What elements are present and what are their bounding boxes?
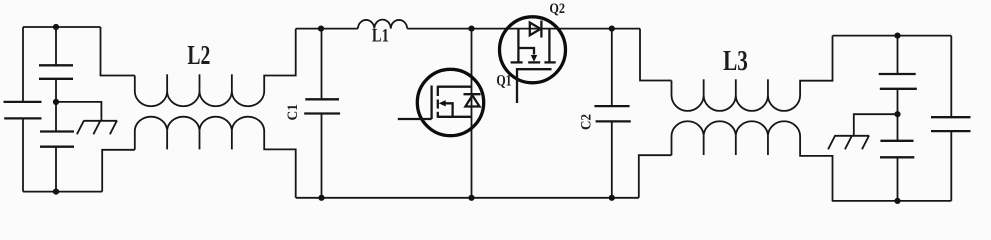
- node chassis junction right: [894, 111, 900, 117]
- node C2 top junction: [609, 26, 615, 32]
- transistor Q2 circle: [500, 17, 566, 83]
- wire bottom-left riser to L2: [102, 150, 135, 192]
- diode Q2 body diode: [530, 21, 542, 38]
- capacitor C2: [594, 29, 630, 198]
- svg-text:C2: C2: [579, 114, 595, 130]
- node Q1 branch top junction: [468, 26, 474, 32]
- wire top-left loop horizontal: [23, 26, 101, 28]
- inductor L2 lower winding: [135, 117, 296, 198]
- capacitor input upper (center branch): [39, 65, 73, 79]
- inductor L2 upper winding: [135, 29, 296, 107]
- capacitor input lower (center branch): [40, 132, 74, 147]
- node C1 bottom junction: [318, 195, 324, 201]
- capacitor input source (left edge): [4, 102, 42, 119]
- svg-text:L1: L1: [372, 27, 389, 47]
- svg-text:L3: L3: [723, 46, 748, 77]
- wire chassis lead left: [56, 102, 101, 121]
- wire right center branch lower: [897, 157, 899, 201]
- wire top-left riser to L2: [101, 27, 135, 76]
- wire Q1 branch vertical: [471, 29, 473, 198]
- wire center branch lower: [55, 147, 57, 192]
- capacitor C1: [304, 29, 340, 198]
- node chassis junction left: [53, 99, 59, 105]
- wire right block top: [833, 35, 952, 37]
- wire center branch upper: [55, 27, 57, 65]
- wire left vertical upper: [22, 27, 24, 102]
- wire top rail corner down to L3: [640, 29, 672, 81]
- capacitor output load (right edge): [931, 117, 971, 131]
- capacitor output upper (center branch): [879, 74, 917, 89]
- node C2 bottom junction: [609, 195, 615, 201]
- transistor Q1 body arrow: [439, 100, 446, 106]
- inductor L1: [358, 20, 407, 29]
- svg-text:Q2: Q2: [549, 1, 565, 17]
- wire center branch middle: [55, 79, 57, 132]
- ground chassis symbol left: [77, 121, 117, 135]
- inductor L3 lower winding: [672, 121, 833, 201]
- wire bottom rail corner up to L3: [639, 155, 672, 198]
- node output bottom junction: [894, 198, 900, 204]
- node output top junction: [894, 33, 900, 39]
- wire right center branch middle: [897, 89, 899, 141]
- transistor Q1 circle: [417, 69, 483, 135]
- wire left vertical lower: [22, 118, 24, 191]
- inductor L3 upper winding: [672, 36, 833, 111]
- wire right block bottom: [832, 200, 952, 202]
- svg-text:L2: L2: [187, 39, 210, 70]
- wire chassis lead right: [854, 114, 898, 136]
- transistor Q2 body arrow: [531, 55, 537, 62]
- wire right edge vertical lower: [950, 131, 952, 201]
- transistor Q2 mosfet symbol: [511, 29, 556, 103]
- node Q1 branch bottom junction: [468, 195, 474, 201]
- svg-text:C1: C1: [285, 104, 301, 121]
- wire middle bottom rail: [296, 197, 639, 199]
- capacitor output lower (center branch): [880, 141, 914, 158]
- wire right edge vertical upper: [950, 36, 952, 118]
- wire right center branch upper: [897, 36, 899, 74]
- wire middle top rail left part: [296, 28, 358, 30]
- diode Q1 body diode: [464, 94, 481, 106]
- wire middle top rail right part: [407, 28, 640, 30]
- node input top junction: [53, 24, 59, 30]
- node input bottom junction: [53, 189, 59, 195]
- ground chassis symbol right: [828, 136, 869, 150]
- wire left block bottom: [23, 191, 102, 193]
- transistor Q1 mosfet symbol: [398, 86, 472, 120]
- node C1 top junction: [318, 26, 324, 32]
